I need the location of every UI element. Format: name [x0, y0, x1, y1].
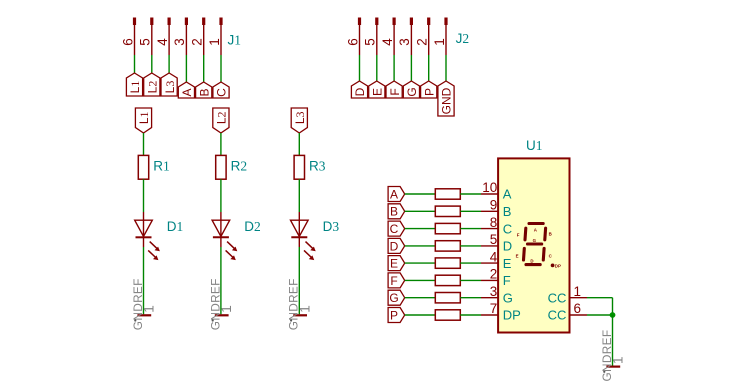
connector J1 pin 4: [155, 18, 171, 56]
svg-text:B: B: [503, 204, 512, 219]
svg-text:E: E: [371, 88, 385, 96]
svg-text:CC: CC: [548, 290, 567, 305]
wire R3 to D3: [298, 179, 300, 212]
global label L3: [161, 73, 177, 96]
svg-text:L3: L3: [293, 111, 307, 124]
wire label to series resistor (F): [405, 279, 436, 281]
connector J1 pin 5: [138, 18, 154, 56]
global label F: [386, 81, 402, 98]
global label G: [403, 81, 419, 98]
svg-text:C: C: [503, 221, 512, 236]
wire D2 to ground: [220, 247, 222, 314]
global label L2: [144, 73, 160, 96]
svg-text:10: 10: [482, 180, 497, 195]
global label G (U1 input): [388, 290, 405, 305]
global label L3 (branch): [291, 108, 307, 133]
svg-text:5: 5: [490, 232, 498, 247]
global label L2 (branch): [213, 108, 229, 133]
wire J2 pin to label G: [410, 55, 412, 81]
wire R1 to D1: [143, 179, 145, 212]
svg-text:GNDREF: GNDREF: [600, 330, 614, 382]
svg-text:G: G: [503, 290, 513, 305]
svg-text:D: D: [353, 87, 367, 96]
svg-text:DP: DP: [555, 263, 561, 268]
segment e: [522, 248, 526, 260]
svg-text:F: F: [388, 88, 402, 95]
svg-text:DP: DP: [503, 308, 521, 323]
segment b: [543, 228, 547, 240]
IC U1 body: [498, 158, 569, 332]
series resistor (G segment): [435, 293, 460, 303]
svg-text:9: 9: [490, 198, 498, 213]
wire R2 to D2: [220, 179, 222, 212]
U1 pin 9: [481, 198, 511, 220]
svg-text:D: D: [503, 239, 512, 254]
svg-text:3: 3: [490, 284, 498, 299]
connector J1 pin 1: [207, 18, 223, 56]
wire D1 to ground: [143, 247, 145, 314]
svg-text:2: 2: [490, 267, 498, 282]
global label DP (U1 input): [388, 308, 405, 323]
svg-text:1: 1: [432, 38, 447, 46]
wire J1 pin to label C: [220, 55, 222, 82]
svg-text:2: 2: [415, 38, 430, 46]
wire J2 pin to label D: [359, 55, 361, 81]
svg-text:GNDREF: GNDREF: [131, 278, 145, 330]
svg-text:5: 5: [363, 38, 378, 46]
global label E: [369, 81, 385, 98]
wire L1 to R1: [143, 133, 145, 155]
decimal point dot: [551, 264, 555, 268]
series resistor (F segment): [435, 275, 460, 285]
wire resistor to U1 pin 4: [460, 262, 481, 264]
svg-text:6: 6: [120, 38, 135, 46]
wire J1 pin to label A: [185, 55, 187, 82]
svg-text:6: 6: [574, 301, 582, 316]
wire J2 pin to label F: [393, 55, 395, 81]
global label A: [178, 82, 194, 98]
wire J1 pin to label L2: [151, 55, 153, 73]
global label B: [196, 82, 212, 98]
global label E (U1 input): [388, 256, 405, 271]
wire J2 pin to label E: [376, 55, 378, 81]
svg-text:E: E: [503, 256, 512, 271]
svg-text:1: 1: [298, 305, 313, 313]
svg-text:D: D: [530, 259, 533, 264]
segment f: [523, 228, 527, 240]
U1 pin 6 (CC): [548, 301, 587, 323]
svg-text:D1: D1: [167, 219, 184, 234]
resistor R2: [216, 155, 247, 179]
wire label to series resistor (A): [405, 193, 436, 195]
svg-text:6: 6: [345, 38, 360, 46]
junction: [610, 312, 616, 318]
wire L3 to R3: [298, 133, 300, 155]
global label A (U1 input): [388, 187, 405, 202]
power symbol GNDREF (D2 branch): [208, 278, 234, 330]
svg-text:5: 5: [138, 38, 153, 46]
global label GND: [438, 81, 454, 116]
wire resistor to U1 pin 5: [460, 245, 481, 247]
global label P: [421, 81, 437, 98]
LED arrows D2: [227, 242, 235, 250]
global label D: [351, 81, 367, 98]
global label B (U1 input): [388, 204, 405, 219]
series resistor (B segment): [435, 206, 460, 216]
global label C: [213, 82, 229, 98]
wire CC pin 6 to junction: [587, 314, 613, 316]
wire label to series resistor (B): [405, 210, 436, 212]
wire D3 to ground: [298, 247, 300, 314]
wire J1 pin to label B: [203, 55, 205, 82]
wire label to series resistor (D): [405, 245, 436, 247]
svg-text:B: B: [197, 88, 211, 96]
U1 pin 7: [481, 301, 521, 323]
wire label to series resistor (G): [405, 297, 436, 299]
series resistor (D segment): [435, 241, 460, 251]
wire label to series resistor (DP): [405, 314, 436, 316]
wire resistor to U1 pin 3: [460, 297, 481, 299]
svg-text:CC: CC: [548, 308, 567, 323]
LED arrows D3: [306, 242, 314, 250]
global label L1 (branch): [135, 108, 151, 133]
wire resistor to U1 pin 9: [460, 210, 481, 212]
U1 pin 10: [481, 180, 512, 202]
LED D2: [212, 212, 261, 260]
svg-text:P: P: [422, 88, 436, 96]
svg-text:L2: L2: [146, 81, 160, 94]
global label C (U1 input): [388, 221, 405, 236]
LED D1: [135, 212, 184, 260]
connector J2 pin 2: [415, 18, 431, 56]
wire resistor to U1 pin 8: [460, 228, 481, 230]
svg-text:1: 1: [207, 38, 222, 46]
svg-text:4: 4: [380, 38, 395, 46]
svg-text:L3: L3: [163, 81, 177, 94]
connector J2 pin 1: [432, 18, 448, 56]
wire label to series resistor (C): [405, 228, 436, 230]
svg-text:J1: J1: [228, 32, 242, 47]
svg-text:R1: R1: [153, 159, 170, 174]
segment g: [528, 242, 542, 245]
wire J2 pin to label P: [428, 55, 430, 81]
connector J1 pin 6: [120, 18, 136, 56]
U1 seven-segment digit graphic: [524, 224, 546, 265]
svg-text:E: E: [516, 254, 519, 259]
svg-text:B: B: [549, 232, 552, 237]
U1 pin 2: [481, 267, 511, 289]
svg-text:F: F: [503, 273, 511, 288]
wire resistor to U1 pin 10: [460, 193, 481, 195]
U1 pin 1 (CC): [548, 284, 587, 306]
LED D3: [291, 212, 340, 260]
wire J2 pin to label GND: [445, 55, 447, 81]
svg-text:GNDREF: GNDREF: [287, 278, 301, 330]
svg-text:3: 3: [172, 38, 187, 46]
svg-text:1: 1: [142, 305, 157, 313]
svg-text:U1: U1: [526, 138, 543, 153]
power symbol GNDREF (D1 branch): [131, 278, 157, 330]
svg-text:D2: D2: [244, 219, 261, 234]
svg-text:7: 7: [490, 301, 498, 316]
svg-text:4: 4: [490, 249, 498, 264]
svg-text:R3: R3: [309, 159, 326, 174]
global label F (U1 input): [388, 273, 405, 288]
global label L1: [126, 73, 142, 96]
svg-text:P: P: [390, 308, 398, 322]
connector J1 pin 3: [172, 18, 188, 56]
svg-text:A: A: [180, 88, 194, 96]
wire J1 pin to label L3: [168, 55, 170, 73]
segment c: [542, 248, 546, 260]
svg-text:J2: J2: [456, 31, 470, 46]
wire resistor to U1 pin 2: [460, 279, 481, 281]
svg-text:4: 4: [155, 38, 170, 46]
svg-text:A: A: [390, 187, 398, 201]
svg-text:1: 1: [611, 356, 626, 364]
svg-text:A: A: [503, 187, 512, 202]
wire resistor to U1 pin 7: [460, 314, 481, 316]
svg-text:F: F: [390, 274, 397, 288]
segment d: [526, 263, 540, 266]
U1 pin 4: [481, 249, 512, 271]
svg-text:L2: L2: [215, 111, 229, 124]
wire label to series resistor (E): [405, 262, 436, 264]
connector J2 pin 6: [345, 18, 361, 56]
power symbol GNDREF (U1): [600, 330, 626, 382]
resistor R3: [294, 155, 326, 179]
U1 pin 5: [481, 232, 512, 254]
svg-text:2: 2: [190, 38, 205, 46]
svg-text:C: C: [215, 88, 229, 97]
svg-text:E: E: [390, 257, 398, 271]
svg-text:L1: L1: [137, 111, 151, 124]
power symbol GNDREF (D3 branch): [287, 278, 313, 330]
U1 pin 3: [481, 284, 513, 306]
svg-text:G: G: [389, 291, 398, 305]
svg-text:D: D: [390, 239, 399, 253]
svg-text:GND: GND: [440, 87, 454, 114]
svg-text:R2: R2: [231, 159, 248, 174]
connector J1 pin 2: [190, 18, 206, 56]
series resistor (A segment): [435, 189, 460, 199]
svg-text:G: G: [533, 238, 537, 243]
series resistor (E segment): [435, 258, 460, 268]
wire J1 pin to label L1: [134, 55, 136, 73]
series resistor (C segment): [435, 223, 460, 233]
connector J2 pin 4: [380, 18, 396, 56]
resistor R1: [138, 155, 169, 179]
svg-text:8: 8: [490, 215, 498, 230]
U1 pin 8: [481, 215, 512, 237]
global label D (U1 input): [388, 238, 405, 253]
wire junction to ground: [612, 315, 614, 366]
connector J2 pin 5: [363, 18, 379, 56]
svg-text:B: B: [390, 205, 398, 219]
svg-text:1: 1: [219, 305, 234, 313]
wire L2 to R2: [220, 133, 222, 155]
svg-text:L1: L1: [128, 81, 142, 94]
segment a: [529, 222, 543, 225]
LED arrows D1: [150, 242, 158, 250]
svg-text:C: C: [390, 222, 399, 236]
wire CC pin 1 to junction: [587, 297, 613, 299]
svg-text:3: 3: [397, 38, 412, 46]
svg-text:GNDREF: GNDREF: [208, 278, 222, 330]
connector J2 pin 3: [397, 18, 413, 56]
svg-text:1: 1: [574, 284, 582, 299]
series resistor (DP segment): [435, 310, 460, 320]
svg-text:D3: D3: [323, 219, 340, 234]
svg-text:G: G: [405, 87, 419, 96]
svg-text:F: F: [517, 233, 520, 238]
